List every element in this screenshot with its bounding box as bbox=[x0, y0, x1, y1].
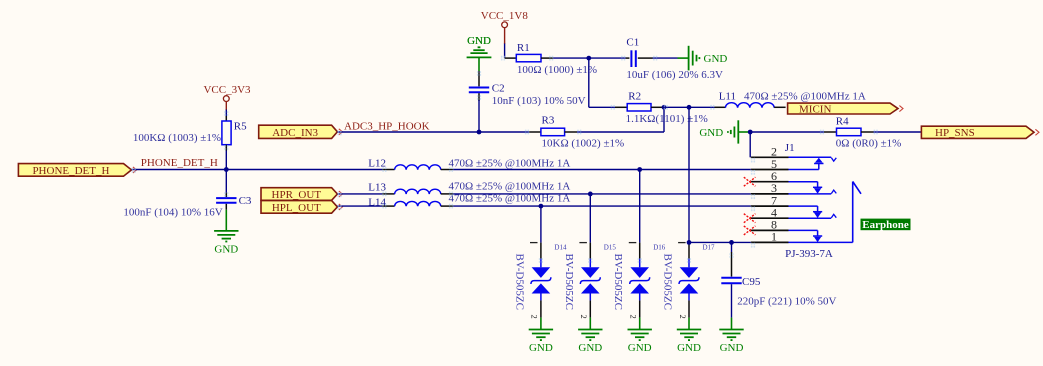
svg-text:GND: GND bbox=[578, 342, 602, 354]
ground right of C1 bbox=[678, 46, 728, 71]
wire node to D14 bbox=[540, 206, 542, 243]
J1 no-connect X pin 4 bbox=[744, 214, 756, 223]
svg-text:C2: C2 bbox=[492, 83, 505, 95]
TVS diode D15 bbox=[563, 243, 617, 319]
ground below C95 bbox=[719, 318, 743, 355]
svg-text:Earphone: Earphone bbox=[862, 219, 909, 231]
junction C95 bbox=[729, 240, 734, 245]
svg-text:GND: GND bbox=[214, 244, 238, 256]
wire PHONE_DET_H to junction bbox=[132, 169, 227, 171]
label Earphone bbox=[861, 219, 911, 231]
junction R2/R3 node bbox=[662, 105, 667, 110]
resistor R2 bbox=[615, 90, 708, 125]
port ADC_IN3 bbox=[259, 125, 338, 138]
resistor R5 bbox=[133, 116, 247, 151]
svg-text:2: 2 bbox=[678, 314, 688, 318]
svg-text:ADC3_HP_HOOK: ADC3_HP_HOOK bbox=[344, 121, 430, 133]
junction L14/D14 bbox=[539, 204, 544, 209]
ground below D16 bbox=[628, 318, 652, 355]
junction L12/D16 bbox=[637, 167, 642, 172]
port MICIN bbox=[788, 103, 898, 114]
svg-text:PJ-393-7A: PJ-393-7A bbox=[785, 248, 833, 260]
port HP_SNS bbox=[921, 126, 1034, 138]
svg-text:100Ω (1000) ±1%: 100Ω (1000) ±1% bbox=[517, 64, 597, 76]
svg-text:GND: GND bbox=[529, 342, 553, 354]
wire junction to R4 bbox=[750, 131, 824, 133]
wire D17 node to C95 bbox=[689, 241, 732, 243]
J1 pin 6 bbox=[751, 169, 789, 183]
svg-text:C3: C3 bbox=[239, 195, 252, 207]
svg-text:10uF (106) 20% 6.3V: 10uF (106) 20% 6.3V bbox=[626, 69, 723, 81]
junction L13/D15 bbox=[588, 192, 593, 197]
wire L13 to J1 pin3 bbox=[453, 193, 751, 195]
svg-text:ADC_IN3: ADC_IN3 bbox=[272, 127, 318, 139]
svg-text:MICIN: MICIN bbox=[799, 103, 831, 115]
J1 switch contact pins 2/5 bbox=[789, 157, 837, 169]
svg-text:470Ω ±25% @100MHz 1A: 470Ω ±25% @100MHz 1A bbox=[449, 181, 571, 193]
wire C95 node to J1 pin1 bbox=[732, 241, 751, 243]
junction MICIN/D17 node bbox=[687, 105, 692, 110]
wire R2 node to MICIN node bbox=[664, 106, 689, 108]
wire junction down to C3 bbox=[225, 170, 227, 193]
svg-text:10KΩ (1002) ±1%: 10KΩ (1002) ±1% bbox=[542, 138, 625, 150]
svg-text:HP_SNS: HP_SNS bbox=[935, 127, 975, 139]
svg-text:HPR_OUT: HPR_OUT bbox=[272, 189, 322, 201]
svg-text:L11: L11 bbox=[719, 90, 736, 102]
capacitor C2 bbox=[469, 83, 586, 107]
svg-text:HPL_OUT: HPL_OUT bbox=[272, 202, 321, 214]
capacitor C3 bbox=[123, 193, 252, 219]
wire node to L11 bbox=[689, 106, 715, 108]
svg-text:GND: GND bbox=[720, 342, 744, 354]
svg-text:470Ω ±25% @100MHz 1A: 470Ω ±25% @100MHz 1A bbox=[449, 157, 571, 169]
TVS diode D14 bbox=[513, 243, 567, 319]
svg-text:C95: C95 bbox=[742, 276, 761, 288]
junction R1/C1/R2 bbox=[586, 56, 591, 61]
inductor L14 bbox=[337, 192, 570, 208]
J1 pin 3 bbox=[751, 181, 789, 195]
svg-text:GND: GND bbox=[704, 53, 728, 65]
svg-text:100nF (104) 10% 16V: 100nF (104) 10% 16V bbox=[123, 207, 222, 219]
svg-text:C1: C1 bbox=[626, 37, 639, 49]
svg-text:1: 1 bbox=[771, 230, 777, 244]
wire VCC_3V3 to R5 bbox=[225, 110, 227, 117]
inductor L13 bbox=[337, 181, 570, 194]
capacitor C1 bbox=[626, 37, 723, 82]
svg-text:J1: J1 bbox=[785, 142, 795, 154]
ground below D15 bbox=[578, 318, 602, 355]
svg-text:10nF (103) 10% 50V: 10nF (103) 10% 50V bbox=[492, 95, 586, 107]
resistor R4 bbox=[824, 116, 901, 150]
svg-text:2: 2 bbox=[530, 314, 540, 318]
junction D17/J1 pin1 wire bbox=[687, 240, 692, 245]
svg-text:R4: R4 bbox=[836, 116, 849, 128]
wire ADC_IN3 to R3 bbox=[337, 131, 479, 133]
markers bbox=[132, 56, 878, 263]
svg-text:BV-D505ZC: BV-D505ZC bbox=[513, 254, 525, 310]
svg-text:470Ω ±25% @100MHz 1A: 470Ω ±25% @100MHz 1A bbox=[449, 192, 571, 204]
svg-text:0Ω (0R0) ±1%: 0Ω (0R0) ±1% bbox=[836, 138, 902, 150]
wire node to D15 bbox=[589, 194, 591, 243]
J1 switch contact pins 8/1 and plug line bbox=[789, 230, 853, 242]
power VCC_3V3 bbox=[203, 84, 251, 110]
svg-text:D17: D17 bbox=[703, 244, 716, 252]
wire VCC_1V8 to R1 bbox=[504, 44, 506, 59]
svg-text:VCC_3V3: VCC_3V3 bbox=[203, 84, 251, 96]
wire GND to C2 bbox=[478, 71, 480, 86]
wire R4 to HP_SNS bbox=[874, 131, 922, 133]
ground below C3 bbox=[214, 210, 238, 256]
wire node to D16 bbox=[639, 170, 641, 243]
svg-text:1.1KΩ(1101) ±1%: 1.1KΩ(1101) ±1% bbox=[626, 113, 708, 125]
ground below D17 bbox=[677, 318, 701, 355]
svg-text:BV-D505ZC: BV-D505ZC bbox=[612, 254, 624, 310]
svg-text:R3: R3 bbox=[542, 115, 555, 127]
wire C1 to GND bbox=[653, 57, 678, 59]
svg-text:2: 2 bbox=[579, 314, 589, 318]
svg-text:220pF (221) 10% 50V: 220pF (221) 10% 50V bbox=[737, 295, 836, 307]
wire junction down to R2 bbox=[588, 58, 590, 107]
svg-text:GND: GND bbox=[699, 127, 723, 139]
J1 pin 7 bbox=[751, 193, 789, 207]
junction GND/R4/J1 pin2 bbox=[748, 130, 753, 135]
J1 pin 5 bbox=[751, 157, 789, 171]
wire junction to C1 bbox=[589, 57, 626, 59]
wire R5 to PHONE_DET_H node bbox=[225, 151, 227, 170]
TVS diode D17 bbox=[662, 243, 716, 319]
svg-text:BV-D505ZC: BV-D505ZC bbox=[563, 254, 575, 310]
junction C2/ADC3 bbox=[477, 130, 482, 135]
wire R1 to C1 bbox=[553, 57, 589, 59]
J1 pin 2 bbox=[751, 145, 789, 159]
inductor L12 bbox=[368, 157, 570, 169]
power VCC_1V8 bbox=[481, 10, 529, 44]
resistor R3 bbox=[529, 115, 624, 150]
capacitor C95 bbox=[721, 242, 836, 317]
svg-text:2: 2 bbox=[629, 314, 639, 318]
J1 no-connect X pin 8 bbox=[744, 226, 756, 235]
junction R5/PHONE_DET_H bbox=[224, 167, 229, 172]
ground GND above C2 bbox=[467, 35, 492, 71]
J1 pin 4 bbox=[751, 206, 789, 220]
svg-text:470Ω ±25% @100MHz 1A: 470Ω ±25% @100MHz 1A bbox=[744, 90, 866, 102]
TVS diode D16 bbox=[612, 243, 666, 319]
svg-text:D16: D16 bbox=[653, 244, 666, 252]
ground below D14 bbox=[529, 318, 553, 355]
port HPR_OUT bbox=[261, 188, 337, 201]
J1 switch contact pins 7/4 bbox=[789, 206, 837, 218]
svg-text:PHONE_DET_H: PHONE_DET_H bbox=[141, 157, 218, 169]
svg-text:PHONE_DET_H: PHONE_DET_H bbox=[32, 165, 109, 177]
wire node to D17 bbox=[688, 107, 690, 242]
wire L14 to J1 pin7 bbox=[453, 205, 751, 207]
wire C2 to node ADC3 bbox=[478, 93, 480, 101]
J1 pin 1 bbox=[751, 230, 789, 244]
svg-text:R2: R2 bbox=[628, 90, 641, 102]
port HPL_OUT bbox=[261, 201, 337, 214]
svg-text:GND: GND bbox=[467, 35, 491, 47]
J1 no-connect X pin 6 bbox=[744, 177, 756, 186]
wire L12 to J1 pin5 bbox=[453, 169, 751, 171]
svg-text:BV-D505ZC: BV-D505ZC bbox=[662, 254, 674, 310]
wire junction to L12 bbox=[226, 169, 382, 171]
svg-text:R5: R5 bbox=[234, 121, 247, 133]
wire junction down to J1 pin2 bbox=[749, 132, 751, 157]
resistor R1 bbox=[505, 42, 598, 76]
inductor L11 bbox=[715, 90, 866, 107]
svg-text:VCC_1V8: VCC_1V8 bbox=[481, 10, 529, 22]
ground left of R4 bbox=[699, 120, 749, 143]
J1 pin 8 bbox=[751, 218, 789, 232]
svg-text:R1: R1 bbox=[517, 42, 530, 54]
J1 switch contact pins 6/3 bbox=[789, 182, 837, 194]
svg-text:GND: GND bbox=[677, 342, 701, 354]
svg-text:D14: D14 bbox=[554, 244, 567, 252]
svg-text:D15: D15 bbox=[604, 244, 617, 252]
svg-text:GND: GND bbox=[628, 342, 652, 354]
port PHONE_DET_H bbox=[18, 164, 131, 177]
svg-text:100KΩ (1003) ±1%: 100KΩ (1003) ±1% bbox=[133, 132, 221, 144]
wire R2 node down to R3 bbox=[663, 107, 665, 132]
